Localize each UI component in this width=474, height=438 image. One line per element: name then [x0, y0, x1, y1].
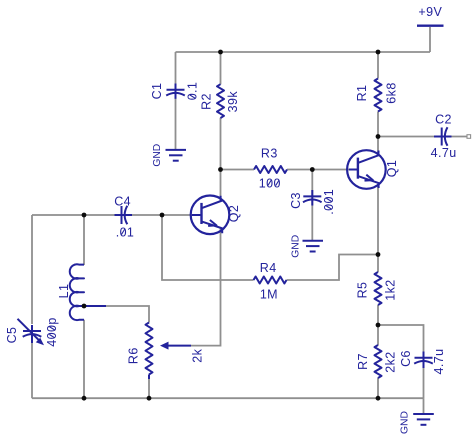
zero slashes [49, 95, 331, 338]
svg-text:4.7u: 4.7u [432, 349, 446, 375]
capacitor C4 [115, 206, 133, 225]
wire R1 branch [377, 52, 379, 137]
wire Q1 collector [377, 137, 379, 155]
wire Q2 emitter to R6 wiper [191, 229, 221, 346]
resistor R4 [254, 277, 287, 284]
wire L1 tap pin [84, 305, 106, 307]
wire L1 branch [83, 215, 85, 398]
node R7 / bottom rail [376, 396, 381, 401]
output terminal pad [467, 135, 471, 139]
+9V supply bar [417, 25, 444, 27]
svg-text:Q2: Q2 [227, 205, 241, 222]
svg-text:R6: R6 [127, 347, 141, 364]
wire L1 tap to R6 top [106, 306, 149, 323]
ground GND1 [166, 150, 187, 161]
wire R5 branch [377, 255, 379, 326]
wire R4 loop [162, 215, 378, 280]
node L1 tap [82, 304, 87, 309]
svg-text:GND: GND [291, 235, 302, 258]
capacitor C6 [414, 352, 433, 369]
node R1 / C2 / Q1 collector [376, 134, 381, 139]
svg-text:C5: C5 [5, 327, 19, 344]
wire Q1 emitter down [377, 184, 379, 255]
inductor L1 [70, 264, 84, 320]
ground GND3 [413, 414, 434, 425]
wire base row R3 to Q1 [221, 169, 350, 171]
svg-text:Q1: Q1 [385, 160, 399, 177]
svg-text:R4: R4 [260, 261, 277, 275]
capacitor C2 [434, 127, 452, 146]
potentiometer R6 [146, 323, 192, 380]
svg-text:2k2: 2k2 [383, 351, 397, 372]
svg-text:C2: C2 [435, 113, 452, 127]
capacitor C5 (variable) [18, 319, 45, 346]
svg-text:C1: C1 [150, 83, 164, 100]
node C4 left / L1 [82, 213, 87, 218]
svg-text:C6: C6 [399, 350, 413, 367]
svg-text:L1: L1 [57, 284, 71, 299]
node R2 / R3 / Q2 collector [218, 167, 223, 172]
svg-text:R2: R2 [199, 93, 213, 110]
svg-text:GND: GND [399, 411, 410, 434]
svg-text:+9V: +9V [418, 5, 442, 19]
svg-text:0.1: 0.1 [186, 82, 200, 101]
svg-text:C3: C3 [289, 192, 303, 209]
resistor R7 [375, 345, 382, 378]
wire +9V drop [429, 27, 431, 52]
wire C3 branch [311, 170, 313, 241]
wire R7 branch [377, 325, 379, 398]
node R5 / R7 / C6 [376, 323, 381, 328]
wire top rail [176, 51, 431, 53]
svg-text:.001: .001 [322, 189, 336, 215]
wire C6 branch [378, 325, 424, 398]
svg-text:C4: C4 [114, 194, 131, 208]
svg-text:400p: 400p [45, 317, 59, 346]
transistor Q1 [347, 150, 386, 189]
ground GND2 [303, 241, 324, 252]
svg-text:2k: 2k [190, 348, 204, 362]
svg-text:39k: 39k [226, 91, 240, 113]
svg-text:.01: .01 [116, 225, 135, 239]
resistor R1 [375, 79, 382, 112]
svg-text:GND: GND [152, 144, 163, 167]
node top rail / R1 [376, 50, 381, 55]
svg-text:R7: R7 [356, 353, 370, 370]
wire GND3 drop [423, 398, 425, 414]
wire bottom rail [32, 397, 424, 399]
node C3 tap [310, 167, 315, 172]
wire C2 row [378, 136, 467, 138]
transistor Q2 [191, 196, 230, 235]
capacitor C3 [303, 190, 322, 206]
wire C4 row [32, 214, 192, 216]
capacitor C1 [166, 84, 185, 99]
wire R2 branch [220, 52, 222, 170]
svg-text:4.7u: 4.7u [431, 146, 457, 160]
svg-text:R1: R1 [355, 85, 369, 102]
svg-text:6k8: 6k8 [385, 82, 399, 103]
wire R6 bottom [148, 379, 150, 398]
node top rail / R2 [218, 50, 223, 55]
wire left rail with C5 [31, 215, 33, 398]
resistor R2 [217, 84, 224, 118]
node L1 / bottom rail [82, 396, 87, 401]
resistor R5 [375, 272, 382, 305]
node R6 / bottom rail [147, 396, 152, 401]
node C4 right / R4 [160, 213, 165, 218]
svg-text:1M: 1M [260, 287, 278, 301]
node Q1 emitter / R4 / R5 [376, 252, 381, 257]
svg-text:R5: R5 [356, 282, 370, 299]
wire Q2 collector [220, 170, 222, 201]
svg-text:R3: R3 [261, 146, 278, 160]
wire C1 branch [175, 52, 177, 150]
resistor R3 [254, 166, 287, 173]
svg-text:1k2: 1k2 [383, 279, 397, 300]
